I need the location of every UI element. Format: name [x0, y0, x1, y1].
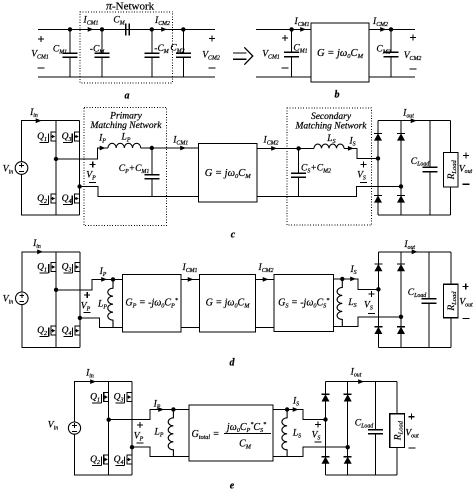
node at -CM right [150, 27, 154, 31]
wire rectifier top rail (d) [378, 251, 450, 253]
diode D2 (e) [322, 456, 330, 458]
wire Gp to G top (d) [181, 278, 200, 280]
inductor Ls shunt (d) [337, 279, 342, 327]
current ICM2 (b) [372, 17, 388, 28]
label Vs (e) [315, 423, 321, 425]
wire rectifier top rail (c) [378, 120, 451, 122]
current Iout (d) [403, 240, 415, 251]
diode D4 (e) [344, 456, 352, 458]
svg-text:Secondary: Secondary [311, 112, 352, 122]
dashed box pi-network [80, 12, 173, 83]
figure e: combined gyrator model [0, 0, 1, 1]
resistor RLoad (c) [450, 121, 452, 153]
label Vs (d) [369, 293, 375, 295]
resistor RLoad (d) [450, 252, 452, 284]
dashed box secondary matching network [287, 108, 372, 225]
node Ls top (e) [285, 407, 289, 411]
resistor RLoad (e) [396, 382, 398, 414]
svg-text:b: b [335, 90, 340, 101]
wire rectifier bottom rail (c) [378, 214, 451, 216]
implies arrow between a and b [233, 52, 247, 54]
wire rectifier left leg (e) [325, 382, 327, 476]
wire rectifier top rail (e) [326, 381, 398, 383]
wire Gs to rectifier top (d) [334, 279, 379, 289]
node on top rail at CM1 [68, 27, 72, 31]
current ICM2 (c) [263, 136, 279, 147]
wire Gp to G bottom (d) [181, 326, 200, 328]
node rectifier right input (e) [346, 445, 350, 449]
svg-text:Matching Network: Matching Network [90, 121, 163, 131]
node Ls top (d) [340, 277, 344, 281]
label a [125, 91, 130, 102]
wire rectifier bottom rail (e) [326, 474, 398, 476]
transistor Q1 (c) [51, 131, 56, 133]
current ICM1 (d) [182, 263, 198, 274]
wire right bridge leg (c) [79, 121, 81, 216]
wire source to top rail (d) [22, 252, 80, 292]
label Vp (e) [137, 424, 143, 426]
label Vout (e) [408, 416, 414, 418]
label pi-Network title [106, 0, 155, 12]
wire rectifier right leg (c) [400, 121, 402, 216]
capacitor CLoad (c) [429, 121, 431, 168]
current ICM2 arrow (a) [154, 16, 170, 27]
diode D3 (e) [344, 393, 352, 395]
node Lp top (e) [171, 407, 175, 411]
capacitor Cs+CM2 (c) [298, 148, 300, 173]
label Vout (d) [463, 286, 469, 288]
transistor Q4 (c) [75, 193, 80, 195]
transistor Q4 (d) [75, 325, 80, 327]
wire source to bottom rail (e) [75, 434, 133, 475]
node rectifier left input (d) [376, 287, 380, 291]
wire right bridge leg (e) [131, 382, 133, 476]
current Is (c) [348, 137, 355, 148]
current Ip (d) [99, 267, 107, 278]
gyrator box G (d) [200, 275, 256, 332]
capacitor CLoad (e) [374, 382, 376, 430]
current Iout (e) [350, 368, 362, 379]
inductor Lp shunt (e) [168, 410, 173, 457]
node right leg midpoint (c) [77, 184, 81, 188]
wire inverter to bottom (e) [132, 447, 189, 457]
label Vp (d) [84, 294, 90, 296]
wire rectifier bottom rail (d) [378, 346, 450, 348]
port VCM2 labels (a) [209, 37, 215, 39]
label Vout (c) [463, 155, 469, 157]
capacitor Cp+CM1 (c) [151, 148, 153, 175]
wire Lp to G box (c) [141, 147, 199, 149]
svg-text:G = jω0CM: G = jω0CM [205, 168, 252, 180]
wire source to bottom rail (d) [22, 305, 80, 348]
capacitor CM2 (b) [390, 29, 392, 52]
wire Gtotal to rectifier bottom (e) [273, 447, 348, 457]
node Lp top (d) [111, 277, 115, 281]
wire G to Gs bottom (d) [256, 326, 274, 328]
wire bottom to rectifier (c) [299, 186, 401, 196]
inductor Ls (c) [314, 144, 344, 148]
current ICM1 (c) [172, 136, 188, 147]
label secondary matching network [311, 112, 352, 122]
inductor Ls shunt (e) [282, 410, 287, 457]
current Iin (c) [29, 108, 38, 119]
current Iin (d) [32, 239, 41, 250]
wire left bridge leg (e) [108, 382, 110, 476]
transistor Q1 (d) [51, 262, 56, 264]
capacitor CM series (a) [102, 28, 126, 30]
node right leg midpoint (d) [78, 316, 82, 320]
svg-text:jω0CP*CS*: jω0CP*CS* [225, 422, 266, 434]
port VCM1 labels [38, 38, 44, 40]
capacitor -CM left [101, 29, 103, 53]
label Vp (c) [90, 163, 96, 165]
wire left bridge leg (d) [55, 252, 57, 348]
wire G to Gs top (d) [256, 278, 274, 280]
gyrator box G (c) [199, 144, 258, 202]
wire top rail (a) [38, 28, 215, 30]
transistor Q1 (e) [104, 392, 109, 394]
node at Cp (c) [150, 146, 154, 150]
label e [230, 481, 235, 490]
wire inverter to Lp (c) [56, 148, 108, 159]
label c [231, 230, 236, 241]
wire source to top rail (e) [75, 382, 133, 422]
gyrator box Gs (d) [274, 275, 334, 332]
inductor Lp (c) [108, 143, 141, 148]
capacitor CM1 (b) [291, 29, 293, 52]
node right leg midpoint (e) [130, 445, 134, 449]
diode D3 (d) [397, 263, 405, 265]
diode D2 (c) [374, 194, 382, 196]
diode D1 (d) [374, 263, 382, 265]
wire Ls to rectifier (c) [344, 148, 378, 158]
figure a: pi-network [0, 0, 1, 1]
current Ip (c) [98, 134, 106, 145]
node CM2 (b) [389, 27, 393, 31]
wire inverter to Lp (d) [56, 279, 122, 289]
node left leg midpoint (e) [107, 418, 111, 422]
node rectifier right input (d) [399, 315, 403, 319]
transistor Q2 (c) [51, 193, 56, 195]
figure b: gyrator equivalent [0, 0, 1, 1]
source Vin (e) [68, 422, 80, 434]
wire inverter to bottom (c) [80, 187, 199, 197]
wire top right (b) [369, 28, 415, 30]
wire inverter to bottom rail of Gp (d) [80, 318, 122, 327]
diode D3 (c) [397, 132, 405, 134]
wire left bridge leg (c) [55, 121, 57, 216]
diode D4 (d) [397, 326, 405, 328]
diode D1 (c) [374, 132, 382, 134]
transistor Q2 (e) [104, 454, 109, 456]
svg-text:e: e [230, 481, 235, 490]
node rectifier left input (c) [376, 156, 380, 160]
node at CM2 [181, 27, 185, 31]
transistor Q3 (e) [127, 392, 132, 394]
wire bottom right (b) [369, 76, 415, 78]
transistor Q2 (d) [51, 325, 56, 327]
svg-text:c: c [231, 230, 236, 241]
current Iin (e) [85, 369, 94, 380]
svg-text:π-Network: π-Network [106, 0, 155, 12]
wire bottom rail (a) [38, 76, 215, 78]
gyrator box Gtotal (e) [189, 405, 273, 461]
wire inverter to Lp (e) [109, 410, 189, 420]
svg-text:Primary: Primary [109, 112, 142, 122]
wire Gs to rectifier bottom (d) [334, 317, 401, 327]
svg-text:G = jω0CM: G = jω0CM [317, 48, 364, 60]
node rectifier left input (e) [323, 417, 327, 421]
current Iout (c) [402, 109, 414, 120]
gyrator box G (b) [311, 23, 369, 82]
wire source to bottom rail (c) [22, 174, 80, 215]
current Is (e) [292, 397, 299, 408]
wire bottom left (b) [256, 76, 311, 78]
gyrator box Gp (d) [122, 275, 181, 332]
current ICM2 (d) [258, 263, 274, 274]
wire rectifier right leg (d) [400, 252, 402, 348]
source Vin (c) [15, 162, 28, 175]
diode D2 (d) [374, 326, 382, 328]
wire G box to secondary (c) [257, 147, 314, 149]
source Vin (d) [15, 292, 28, 305]
capacitor -CM right [151, 29, 153, 53]
label b [335, 90, 340, 101]
wire G box bottom to secondary (c) [257, 196, 299, 198]
wire rectifier right leg (e) [347, 382, 349, 476]
capacitor CM1 (a) [69, 29, 71, 53]
current ICM1 (b) [294, 17, 310, 28]
node at -CM left [100, 27, 104, 31]
port VCM1 labels (b) [282, 37, 288, 39]
transistor Q4 (e) [127, 454, 132, 456]
transistor Q3 (d) [75, 262, 80, 264]
diode D1 (e) [322, 393, 330, 395]
label Gtotal equation [192, 429, 220, 441]
wire rectifier left leg (c) [377, 121, 379, 216]
node left leg midpoint (c) [54, 157, 58, 161]
node CM1 (b) [289, 27, 293, 31]
figure c: full system with matching networks [0, 0, 1, 1]
current ICM1 arrow (a) [83, 16, 99, 27]
node rectifier right input (c) [399, 184, 403, 188]
diode D4 (c) [397, 194, 405, 196]
svg-text:a: a [125, 91, 130, 102]
label d [230, 358, 236, 369]
dashed box primary matching network [84, 108, 167, 226]
wire source to top rail (c) [22, 121, 80, 162]
node at Cs (c) [296, 146, 300, 150]
figure d: gyrator cascade model [0, 0, 1, 1]
label Vs (c) [361, 163, 367, 165]
current Ip (e) [153, 400, 161, 411]
port VCM2 labels (b) [410, 36, 416, 38]
label primary matching network [109, 112, 142, 122]
capacitor CM2 (a) [182, 29, 184, 53]
node left leg midpoint (d) [54, 288, 58, 292]
current Is (d) [349, 265, 356, 276]
transistor Q3 (c) [75, 131, 80, 133]
wire rectifier left leg (d) [377, 252, 379, 348]
wire right bridge leg (d) [79, 252, 81, 348]
wire top left (b) [256, 28, 311, 30]
inductor Lp shunt (d) [108, 279, 113, 327]
svg-text:Matching Network: Matching Network [295, 122, 368, 132]
wire Gtotal to rectifier top (e) [273, 410, 325, 420]
svg-text:G = jω0CM: G = jω0CM [206, 298, 251, 310]
capacitor CLoad (d) [428, 252, 430, 299]
